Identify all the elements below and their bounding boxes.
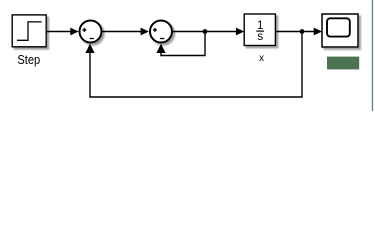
arrowhead into Sum1 bottom [85,44,94,53]
sign minus Sum1 [90,38,94,40]
svg-text:s: s [257,31,263,43]
wire Step to Sum1 [46,31,71,33]
arrowhead into Sum2 left [141,28,149,36]
green highlight bar (scope label) [327,57,359,70]
block Step [12,15,46,47]
arrowhead into Integrator [236,28,244,36]
block Scope [322,14,358,47]
wire Sum2 to Integrator [172,31,238,33]
wire inner feedback (Sum2 loop) [161,32,205,56]
junction node after Integrator [300,29,305,34]
svg-text:x: x [259,53,264,64]
arrowhead into Scope [314,28,322,36]
integrator fraction bar [256,30,264,32]
sign plus Sum2 [153,28,157,32]
junction node after Sum2 [203,29,208,34]
wire Integrator to Scope [275,31,315,33]
svg-text:Step: Step [17,53,40,67]
wire Sum1 to Sum2 [102,31,142,33]
step icon [17,22,42,40]
sum junction Sum1 [80,21,102,43]
wire outer feedback (Sum1 loop) [90,32,302,98]
sign minus Sum2 [160,38,164,40]
arrowhead into Sum2 bottom [156,44,165,53]
scope screen [327,18,350,36]
block Integrator 1/s [244,14,275,46]
sign plus Sum1 [82,28,86,32]
green vertical edge line [372,0,373,111]
sum junction Sum2 [150,21,172,43]
arrowhead into Sum1 left [70,28,78,36]
